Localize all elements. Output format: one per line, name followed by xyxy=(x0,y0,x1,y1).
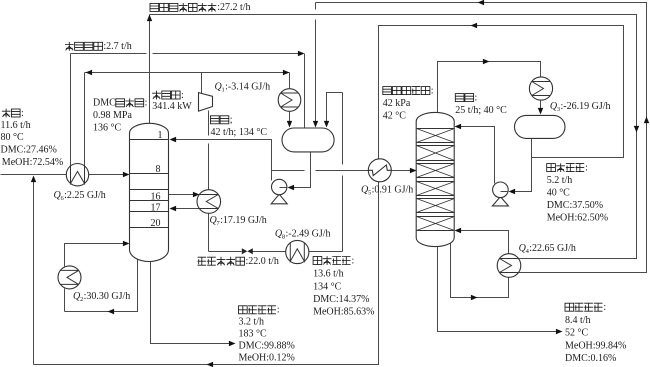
pump P1 (reflux pump of T1) xyxy=(271,179,287,204)
heat exchanger Q6 feed preheater xyxy=(66,164,88,186)
svg-text:136 °C: 136 °C xyxy=(93,123,121,134)
wire: reflux from pump P2 to column T2 (25 t/h) xyxy=(455,124,495,184)
svg-text:DMC:37.50%: DMC:37.50% xyxy=(547,200,603,211)
wire: column T1 bottoms product (3.2 t/h) xyxy=(151,261,236,347)
svg-text::17.19 GJ/h: :17.19 GJ/h xyxy=(220,215,267,226)
label: Q3 duty xyxy=(550,101,611,113)
label: Q6 duty xyxy=(54,190,106,202)
svg-text::-3.14 GJ/h: :-3.14 GJ/h xyxy=(225,82,270,93)
label: T2 overhead product 塔顶采出 block xyxy=(547,162,608,223)
svg-text:DMC:27.46%: DMC:27.46% xyxy=(1,145,57,156)
svg-text:MeOH:85.63%: MeOH:85.63% xyxy=(313,306,374,317)
svg-text::27.2 t/h: :27.2 t/h xyxy=(217,2,250,13)
wire: drum V2 bottom outlet to pump P2 xyxy=(509,139,532,195)
wire: feed preheat supply branch (2.7 t/h) from riser junction to Q6 xyxy=(85,70,150,167)
svg-text::-2.49 GJ/h: :-2.49 GJ/h xyxy=(286,229,331,240)
svg-text:DMC:14.37%: DMC:14.37% xyxy=(313,294,369,305)
label: Q5 duty xyxy=(361,184,413,196)
wire: recycle from Q5 down to bottom header back to feed xyxy=(34,182,379,367)
svg-text:;: ; xyxy=(230,115,233,126)
svg-text:MeOH:62.50%: MeOH:62.50% xyxy=(547,213,608,224)
svg-text::: : xyxy=(277,305,280,316)
wire: drum V1 inlet from top header (broken at crossing) xyxy=(313,3,318,128)
svg-text::: : xyxy=(145,98,148,109)
wire: column T2 feed line through Q5 (13.6 t/h) xyxy=(272,168,417,173)
wire: Q7 shell outlet to expansion valve and Q8 (中间再沸器 line) xyxy=(209,214,287,252)
label: feed stream 进料 data xyxy=(1,108,64,168)
svg-text:8.4 t/h: 8.4 t/h xyxy=(565,315,591,326)
wire: column T2 bottoms to reboiler Q4 xyxy=(451,243,509,301)
svg-text::: : xyxy=(585,162,588,173)
label: Q8 duty xyxy=(275,229,331,241)
wire: reboiler Q4 vapor return to column T2 xyxy=(455,228,509,254)
label: 低压塔塔釜换热 27.2 t/h xyxy=(150,2,251,13)
wire: recycle return joining feed (from bottom header) xyxy=(31,176,36,365)
wire: condenser Q1 outlet into drum V1 xyxy=(287,112,292,128)
wire: Q7 tube side return to column T1 tray 17 xyxy=(170,206,200,211)
svg-text:52 °C: 52 °C xyxy=(565,328,588,339)
svg-text::: : xyxy=(431,85,434,96)
svg-text:341.4 kW: 341.4 kW xyxy=(152,101,192,112)
pump P2 (reflux pump of T2) xyxy=(492,182,508,206)
svg-text::: : xyxy=(475,92,478,103)
svg-text:25 t/h; 40 °C: 25 t/h; 40 °C xyxy=(455,105,507,116)
svg-text::2.7 t/h: :2.7 t/h xyxy=(103,41,131,52)
column T1 DMC回收塔 (trayed tower) xyxy=(130,123,169,261)
heat exchanger Q1 trim condenser xyxy=(278,89,301,112)
wire: drum V1 bottom outlet to pump P1 xyxy=(288,153,311,191)
label: Q7 duty xyxy=(210,215,267,227)
wire: line to LP-column reboiler exchange (27.2 t/h), top header to right side down to Q4 inlet xyxy=(150,15,640,259)
wire: Q6 return line (label 原料预热:2.7 t/h) to drum V1 xyxy=(71,51,305,167)
label: 中间再沸器 22.0 t/h xyxy=(198,256,279,267)
tray number labels 1/8/16/17/20 xyxy=(151,130,163,229)
label: T2 bottoms product 塔釜采出 block xyxy=(565,302,626,364)
label: 原料预热 2.7 t/h xyxy=(65,41,132,52)
svg-text::0.91 GJ/h: :0.91 GJ/h xyxy=(372,184,414,195)
label: DMC回收塔 0.98 MPa 136 C xyxy=(93,98,147,134)
svg-text:42 t/h; 134 °C: 42 t/h; 134 °C xyxy=(211,127,268,138)
svg-text::22.0 t/h: :22.0 t/h xyxy=(246,256,279,267)
svg-text:20: 20 xyxy=(151,218,161,229)
svg-text:80 °C: 80 °C xyxy=(1,132,24,143)
wire: condenser Q3 outlet into drum V2 xyxy=(538,101,543,115)
svg-text:3.2 t/h: 3.2 t/h xyxy=(239,317,265,328)
svg-text:MeOH:0.12%: MeOH:0.12% xyxy=(239,353,295,364)
wire: distillate recycle (5.2 t/h) from drum V2 up and over to Q5 xyxy=(379,23,624,159)
wire: reflux line from pump P1 to column T1 (42 t/h) xyxy=(170,137,272,181)
svg-text::22.65 GJ/h: :22.65 GJ/h xyxy=(529,243,576,254)
svg-text:5.2 t/h: 5.2 t/h xyxy=(547,175,573,186)
svg-text::: : xyxy=(603,302,606,313)
wire: reboiler Q2 vapor return to column T1 xyxy=(65,241,130,267)
label: Q4 duty xyxy=(519,243,576,255)
label: T1 overhead product 塔顶采出 block xyxy=(313,255,374,317)
svg-text::30.30 GJ/h: :30.30 GJ/h xyxy=(84,291,131,302)
svg-text:1: 1 xyxy=(158,130,163,141)
svg-text:0.98 MPa: 0.98 MPa xyxy=(93,110,132,121)
wire: Q4 condensate return, right edge up and across to drum V1 xyxy=(316,0,650,273)
label: Q2 duty xyxy=(73,291,130,303)
svg-text::-26.19 GJ/h: :-26.19 GJ/h xyxy=(561,101,611,112)
expansion valve on 22.0 t/h line xyxy=(242,248,253,254)
heat exchanger Q8 trim cooler xyxy=(286,240,309,263)
wire: feed line from battery limit through Q6 into column T1 xyxy=(1,172,130,177)
svg-text:13.6 t/h: 13.6 t/h xyxy=(313,269,344,280)
label: 甲醇回收塔 42 kPa 42 C xyxy=(383,85,434,121)
svg-text:183 °C: 183 °C xyxy=(239,329,267,340)
wire: column T1 bottoms to reboiler Q2 xyxy=(65,259,138,315)
wire: overhead vapor header to compressor and Q1 xyxy=(150,70,290,89)
wire: column T2 bottoms product (8.4 t/h) xyxy=(438,243,563,335)
heat exchanger Q7 intermediate reboiler xyxy=(197,190,221,214)
compressor K1 (341.4 kW) xyxy=(199,93,213,112)
svg-text::2.25 GJ/h: :2.25 GJ/h xyxy=(64,190,106,201)
svg-text:MeOH:99.84%: MeOH:99.84% xyxy=(565,340,626,351)
label: reflux of T2 回流 25 t/h 40 C xyxy=(455,92,507,115)
column T2 甲醇回收塔 (packed tower) xyxy=(416,112,454,246)
svg-text:42 °C: 42 °C xyxy=(383,110,406,121)
svg-text:DMC:0.16%: DMC:0.16% xyxy=(565,353,616,364)
svg-text:DMC:99.88%: DMC:99.88% xyxy=(239,341,295,352)
drum V1 (reflux drum of T1) xyxy=(282,128,334,152)
label: Q1 duty xyxy=(215,82,271,94)
svg-text:MeOH:72.54%: MeOH:72.54% xyxy=(2,157,63,168)
svg-text:16: 16 xyxy=(151,191,161,202)
heat exchanger Q4 reboiler of T2 xyxy=(497,254,521,278)
svg-text::: : xyxy=(352,255,355,266)
wire: column T1 overhead riser to top junction xyxy=(147,15,152,124)
heat exchanger Q3 condenser of T2 xyxy=(529,77,552,100)
svg-text:40 °C: 40 °C xyxy=(547,188,570,199)
wire: compressor K1 suction branch xyxy=(201,73,203,94)
drum V2 (reflux drum of T2) xyxy=(515,115,566,138)
svg-text:DMC: DMC xyxy=(93,98,116,109)
label: reflux of T1 回流 42 t/h 134 C xyxy=(211,115,268,138)
heat exchanger Q5 feed/recycle interchanger xyxy=(368,159,391,182)
label: compressor 压缩机 341.4 kW xyxy=(152,90,192,112)
svg-text:17: 17 xyxy=(151,203,161,214)
label: T1 bottoms product 塔釜采出 block xyxy=(239,305,295,364)
svg-text::: : xyxy=(21,108,24,119)
wire: Q7 tube side draw from column T1 tray 16 xyxy=(169,192,200,197)
svg-text:8: 8 xyxy=(156,164,161,175)
wire: compressor K1 discharge down to Q7 (broken at reflux crossing) xyxy=(208,111,210,190)
svg-text::: : xyxy=(181,90,184,101)
svg-text:134 °C: 134 °C xyxy=(313,281,341,292)
heat exchanger Q2 reboiler of T1 xyxy=(58,266,81,289)
wire: Q8 outlet up and into drum V1 xyxy=(309,93,343,252)
svg-text:42 kPa: 42 kPa xyxy=(383,98,411,109)
wire: column T2 overhead to condenser Q3 xyxy=(438,59,541,113)
svg-text:11.6 t/h: 11.6 t/h xyxy=(1,120,31,131)
